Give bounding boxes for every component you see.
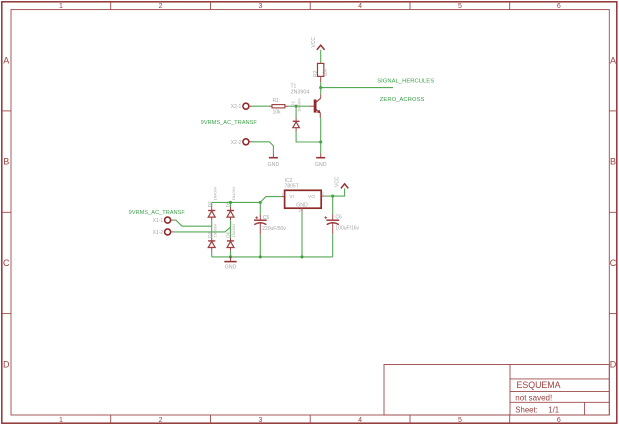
svg-text:2: 2 xyxy=(159,417,163,424)
frame column numbers bottom xyxy=(59,417,561,424)
frame column ticks bottom xyxy=(111,415,510,423)
wire bridge top rail xyxy=(212,201,261,203)
title block xyxy=(384,365,609,416)
svg-text:B: B xyxy=(610,157,616,167)
wire base net xyxy=(296,105,309,107)
svg-text:X1-2: X1-2 xyxy=(153,230,164,236)
wire D1 to emitter node xyxy=(296,132,321,143)
node top rail right chain xyxy=(229,201,232,204)
svg-text:1N4004: 1N4004 xyxy=(231,223,236,237)
connector pin X2-1 xyxy=(231,103,252,110)
svg-text:10k: 10k xyxy=(273,109,282,115)
svg-text:3: 3 xyxy=(258,3,262,10)
svg-text:3: 3 xyxy=(322,192,324,196)
wire R2 to collector node xyxy=(320,82,322,87)
wire emitter down xyxy=(320,118,322,142)
node emitter junction xyxy=(319,140,322,143)
connector pin X1-1 xyxy=(153,217,174,224)
ground GND (supply) xyxy=(224,257,236,271)
svg-text:7805T: 7805T xyxy=(285,183,299,189)
svg-text:ZERO_ACROSS: ZERO_ACROSS xyxy=(380,97,425,103)
title block text Sheet 1/1 xyxy=(515,405,559,414)
frame row letters left xyxy=(3,56,10,370)
svg-text:not saved!: not saved! xyxy=(515,393,552,402)
connector pin X1-2 xyxy=(153,229,174,236)
svg-text:1: 1 xyxy=(59,3,63,10)
frame column ticks top xyxy=(111,2,510,10)
svg-text:SIGNAL_HERCULES: SIGNAL_HERCULES xyxy=(377,78,434,84)
svg-text:R2: R2 xyxy=(313,70,319,77)
wire signal net xyxy=(321,87,393,89)
svg-text:2: 2 xyxy=(299,209,301,213)
svg-text:1: 1 xyxy=(281,192,283,196)
svg-text:Sheet:: Sheet: xyxy=(515,405,538,414)
frame row ticks left xyxy=(2,111,11,314)
svg-text:1: 1 xyxy=(59,417,63,424)
node bottom rail C5 xyxy=(259,255,262,258)
capacitor C6 100uF/16v xyxy=(324,196,359,234)
frame column numbers top xyxy=(59,3,561,10)
svg-text:R1: R1 xyxy=(273,98,280,104)
wire X1-2 to bridge right midpoint xyxy=(174,227,231,232)
svg-text:1N4004: 1N4004 xyxy=(231,186,236,200)
title block text ESQUEMA xyxy=(517,380,561,390)
svg-text:X2-1: X2-1 xyxy=(231,104,242,110)
svg-text:GND: GND xyxy=(225,264,237,270)
svg-text:1N4004: 1N4004 xyxy=(212,186,217,200)
voltage regulator IC2 7805T xyxy=(281,178,324,213)
wire C6 to bottom rail xyxy=(332,234,334,257)
connector pin X2-2 xyxy=(231,139,252,146)
svg-text:1N4004: 1N4004 xyxy=(297,98,302,112)
svg-text:6: 6 xyxy=(557,417,561,424)
wire X2-1 to R1 xyxy=(252,105,269,107)
svg-text:5: 5 xyxy=(458,417,462,424)
svg-text:X2-2: X2-2 xyxy=(231,140,242,146)
svg-text:1N4004: 1N4004 xyxy=(212,223,217,237)
svg-text:X1-1: X1-1 xyxy=(153,218,164,224)
wire top rail to IC2 VI xyxy=(260,197,282,203)
svg-text:2: 2 xyxy=(159,3,163,10)
wire C5 to bottom rail xyxy=(259,234,261,257)
diode D5 1N4004 xyxy=(225,186,236,220)
wire bridge right chain xyxy=(230,202,232,257)
svg-text:VO: VO xyxy=(308,194,315,200)
svg-text:9VRMS_AC_TRANSF: 9VRMS_AC_TRANSF xyxy=(129,210,186,216)
svg-text:3: 3 xyxy=(258,417,262,424)
diode D2 1N4004 xyxy=(207,186,218,220)
transistor T1 2N3904 xyxy=(291,84,321,118)
svg-text:VCC: VCC xyxy=(311,37,317,48)
wire bottom rail xyxy=(212,256,333,258)
svg-text:100uF/16v: 100uF/16v xyxy=(335,225,359,231)
supply symbol VCC (regulator output) xyxy=(333,176,349,196)
svg-text:ESQUEMA: ESQUEMA xyxy=(517,380,561,390)
resistor R1 10k xyxy=(269,98,288,115)
svg-text:A: A xyxy=(610,56,616,66)
svg-text:5: 5 xyxy=(458,3,462,10)
svg-text:A: A xyxy=(3,56,9,66)
svg-text:GND: GND xyxy=(296,203,308,209)
wire X2-2 to ground xyxy=(252,142,273,154)
capacitor C5 220uF/50v xyxy=(254,202,286,234)
node VCC out xyxy=(331,195,334,198)
wire VCC to R2 xyxy=(320,50,322,64)
resistor R2 10k xyxy=(313,63,328,82)
node base junction xyxy=(295,105,298,108)
svg-text:2N3904: 2N3904 xyxy=(291,90,310,96)
svg-text:GND: GND xyxy=(315,162,327,168)
svg-text:9VRMS_AC_TRANSF: 9VRMS_AC_TRANSF xyxy=(201,120,258,126)
svg-text:220uF/50v: 220uF/50v xyxy=(262,226,286,232)
node collector junction xyxy=(319,86,322,89)
svg-text:C: C xyxy=(610,258,617,268)
ground GND (emitter) xyxy=(315,153,327,168)
svg-text:6: 6 xyxy=(557,3,561,10)
svg-text:D: D xyxy=(3,359,10,369)
supply symbol VCC (top) xyxy=(311,37,325,50)
node bottom rail bridge xyxy=(229,255,232,258)
diode D3 1N4004 xyxy=(207,223,218,251)
ground GND (X2-2) xyxy=(268,153,280,168)
svg-text:4: 4 xyxy=(358,3,362,10)
wire VO to VCC node xyxy=(325,195,333,197)
svg-text:C6: C6 xyxy=(335,215,342,221)
svg-text:10k: 10k xyxy=(322,68,328,77)
wire bridge left chain xyxy=(211,202,213,257)
svg-text:GND: GND xyxy=(268,162,280,168)
wire IC2 GND to bottom rail xyxy=(301,212,303,257)
svg-text:C5: C5 xyxy=(263,215,270,221)
svg-text:D: D xyxy=(610,359,617,369)
wire R1 to base xyxy=(288,105,296,107)
node bottom rail IC2 GND xyxy=(300,255,303,258)
svg-text:VI: VI xyxy=(289,194,294,200)
svg-text:B: B xyxy=(3,157,9,167)
node top rail C5 xyxy=(259,201,262,204)
svg-text:VCC: VCC xyxy=(335,176,341,187)
title block text not saved! xyxy=(515,393,552,402)
wire X1-1 to bridge left midpoint xyxy=(174,220,212,226)
diode D1 1N4004 xyxy=(291,98,302,132)
svg-text:1/1: 1/1 xyxy=(548,405,559,414)
diode D6 1N4004 xyxy=(225,223,236,251)
wire emitter node to ground xyxy=(320,142,322,153)
svg-text:4: 4 xyxy=(358,417,362,424)
frame row ticks right xyxy=(609,111,617,314)
frame row letters right xyxy=(610,56,617,370)
svg-text:C: C xyxy=(3,258,10,268)
